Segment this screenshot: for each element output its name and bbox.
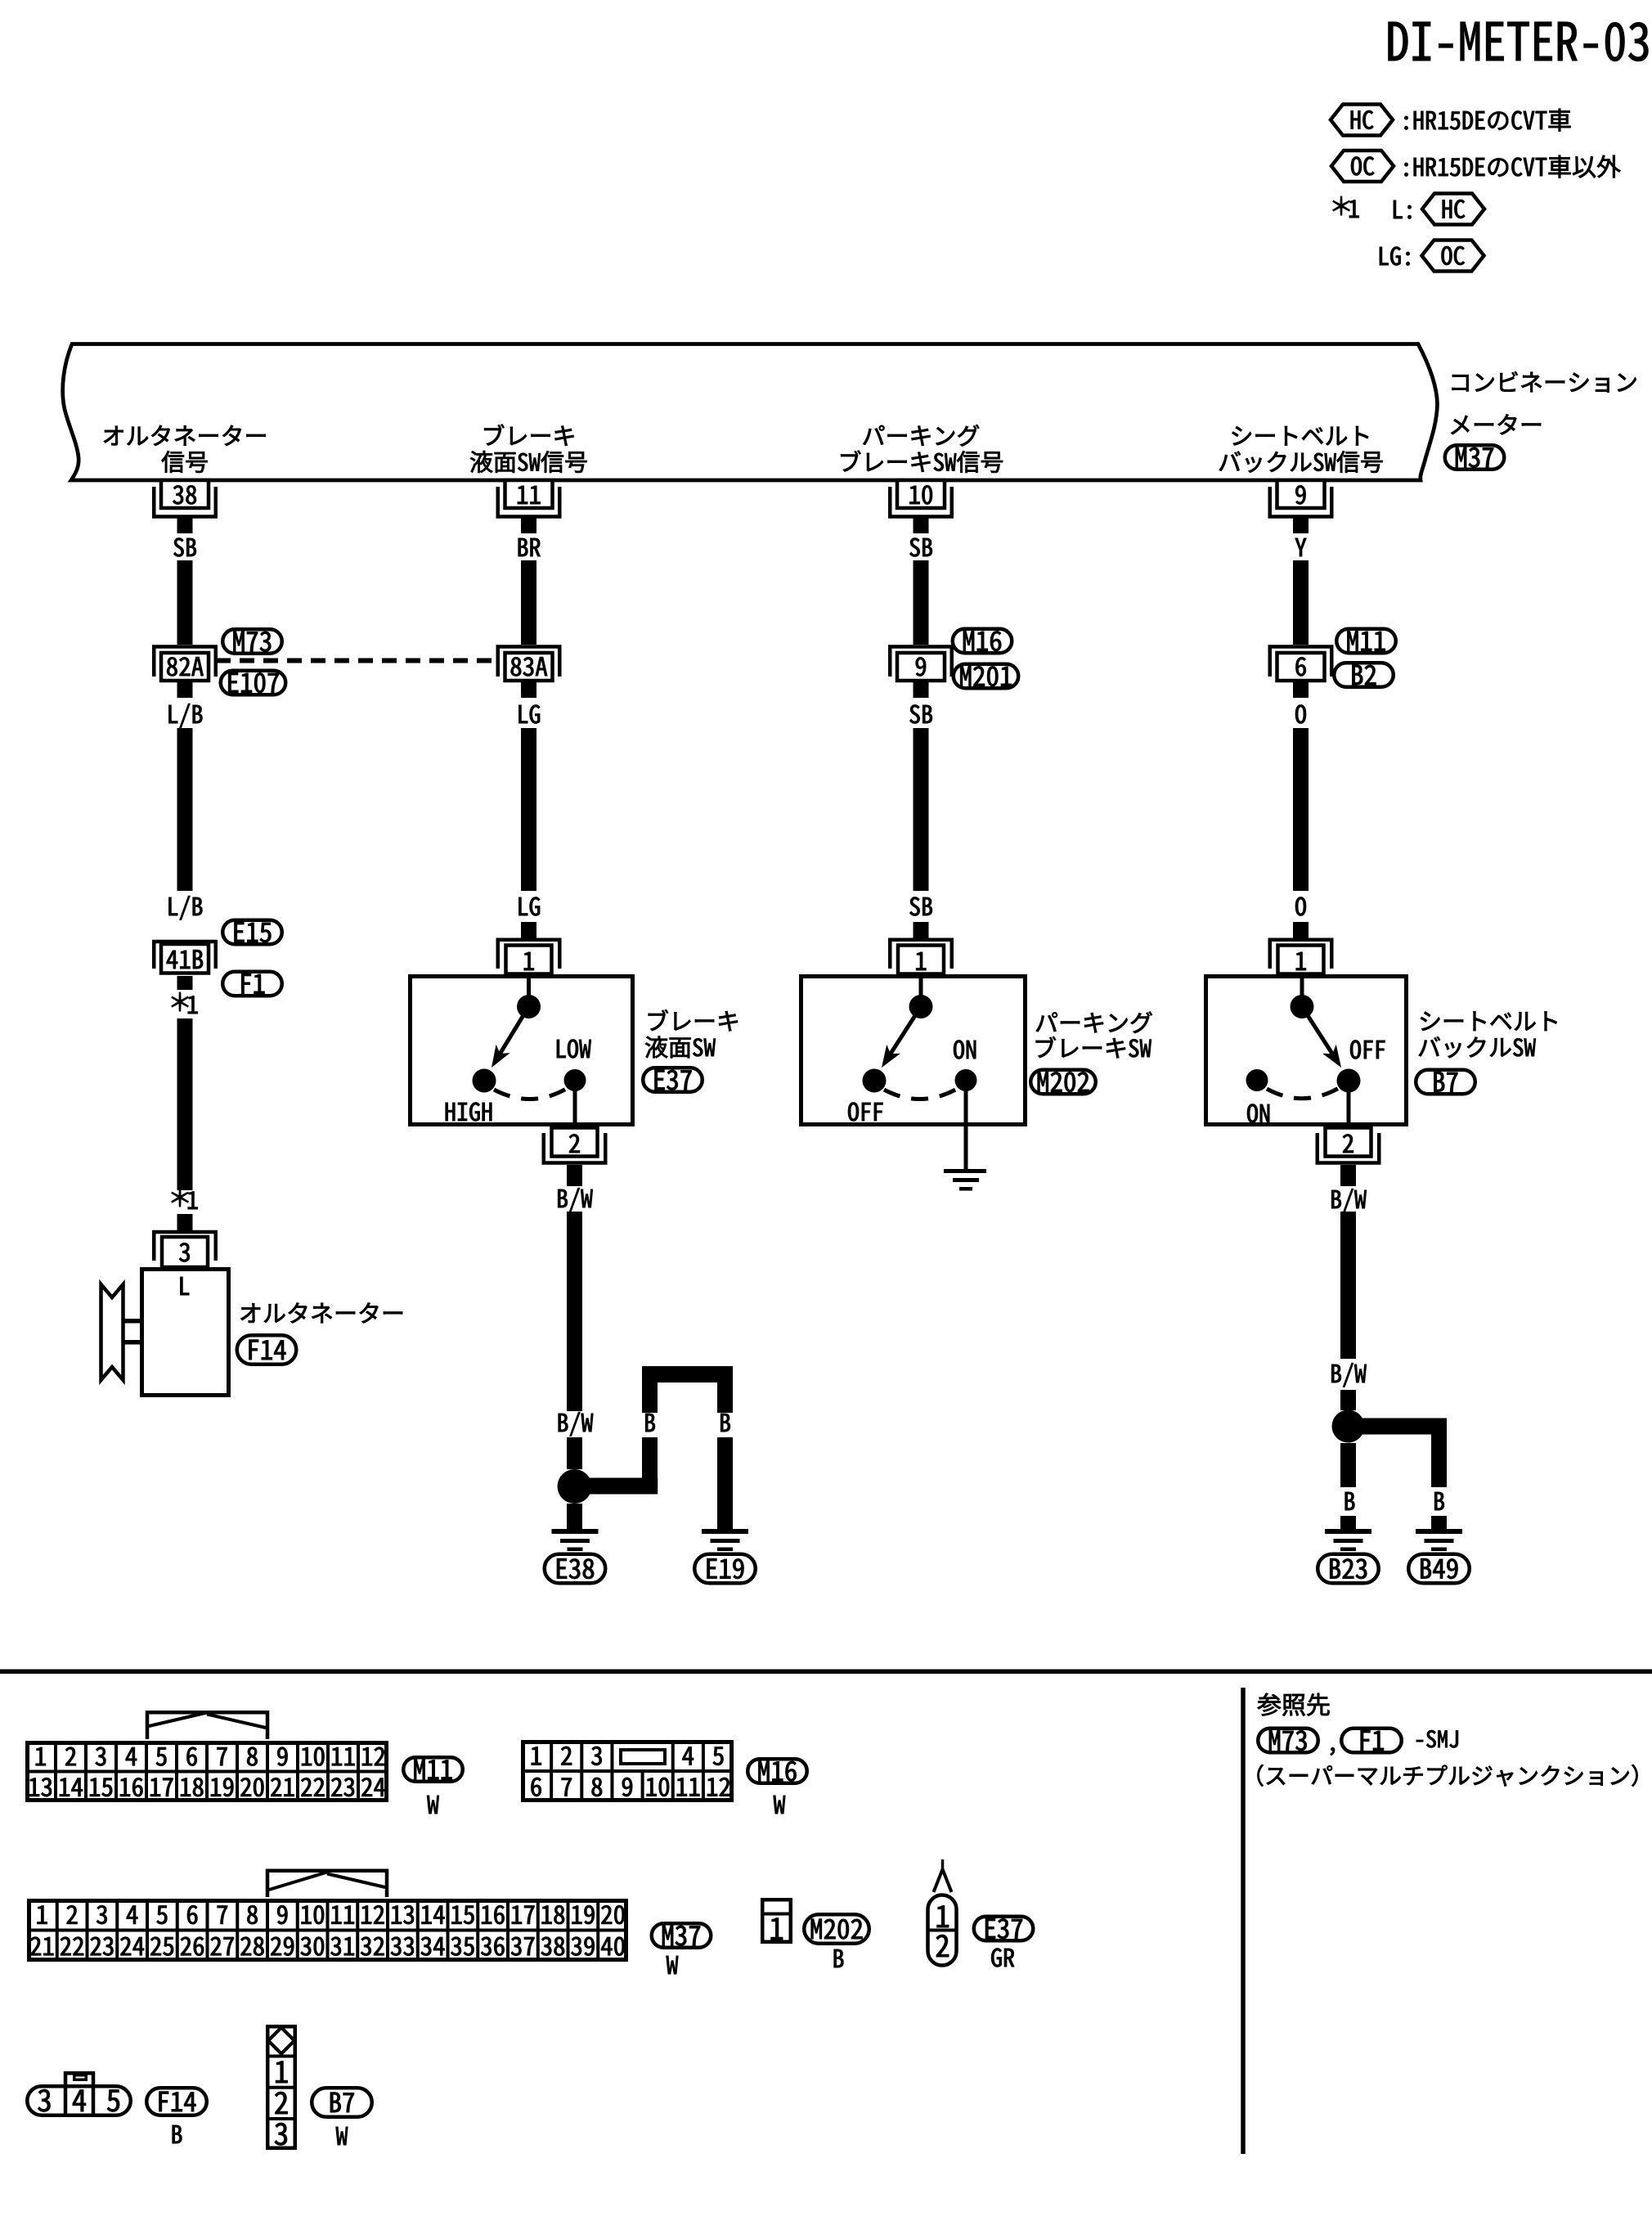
connector drawing B7 ref <box>312 2088 372 2117</box>
wire color SB col3 b <box>909 705 931 724</box>
switch E37 dashed arc <box>494 1088 568 1099</box>
wire color B/W col2 <box>558 1188 592 1212</box>
wire color SB col3 c <box>909 897 931 916</box>
alternator F14 box <box>142 1270 229 1396</box>
wire color Y col4 <box>1295 538 1307 556</box>
wire col1 middle <box>177 728 193 891</box>
connector ref B2 <box>1334 663 1394 687</box>
connector E37 color GR <box>991 1949 1014 1967</box>
connector ref M37 <box>1445 445 1505 470</box>
wire col4 stub to pin1 <box>1293 922 1309 938</box>
connector drawing M202 <box>762 1900 791 1942</box>
connector drawing E37 <box>928 1895 957 1966</box>
connector ref E15 <box>222 920 282 945</box>
switch E37 arrow <box>500 1007 528 1054</box>
wire color B/W col4 <box>1331 1189 1366 1212</box>
combination meter box M37 <box>63 344 1438 481</box>
wire col4 branch horizontal <box>1349 1418 1448 1435</box>
connector F14 color B <box>173 2125 182 2143</box>
wire col2 lower <box>567 1212 582 1411</box>
connector M202 color B <box>834 1949 844 1967</box>
wire col1 lower <box>177 1018 193 1190</box>
connector ref M16 <box>953 629 1012 654</box>
connector 83A <box>498 647 560 677</box>
switch E37 LOW contact <box>564 1069 586 1091</box>
connector ref M11 mid <box>1336 629 1396 654</box>
reference column divider <box>1241 1688 1246 2154</box>
connector M11 color W <box>427 1796 439 1814</box>
label parking brake SW signal <box>863 425 979 446</box>
connector drawing M16 <box>523 1742 732 1801</box>
ground ref B49 <box>1408 1554 1470 1584</box>
wire branch U top <box>642 1366 733 1383</box>
dashed link 82A-83A <box>216 659 498 663</box>
wire color O col4 b <box>1295 897 1306 916</box>
label super multiple junction <box>1258 1765 1638 1787</box>
label sanshosaki <box>1258 1693 1330 1716</box>
legend note LG <box>1380 247 1410 266</box>
legend tag HC 2 <box>1422 194 1484 225</box>
note *1 lower <box>172 1188 189 1207</box>
connector ref M73 <box>222 629 282 654</box>
switch M202 ground lead <box>964 1089 968 1171</box>
wire color L/B col1 <box>169 704 203 727</box>
ground B49 symbol <box>1416 1529 1462 1534</box>
label alternator <box>241 1302 403 1323</box>
switch M202 ON contact <box>955 1069 977 1091</box>
junction col4 <box>1332 1410 1365 1443</box>
wire color L/B col1 b <box>169 896 203 919</box>
wire col4 stub below pin2 <box>1340 1165 1356 1186</box>
connector 9 harness <box>890 647 952 677</box>
label parking brake SW <box>1036 1012 1152 1033</box>
ground E38 symbol <box>552 1529 599 1534</box>
wire color LG col2 b <box>519 897 541 916</box>
wire col2 stub to pin1 <box>521 922 536 938</box>
wire col2 branch horizontal <box>575 1478 658 1495</box>
pin 11 <box>505 480 553 508</box>
pin 1 brake fluid SW <box>498 940 560 969</box>
parking brake SW box M202 <box>801 977 1026 1125</box>
wire col4 right to ground <box>1431 1516 1447 1529</box>
wire color B right <box>721 1414 730 1432</box>
ground ref E38 <box>545 1554 606 1584</box>
wire col1 stub <box>177 1214 193 1230</box>
wire col4 middle <box>1293 728 1309 891</box>
connector drawing E37 ref <box>974 1917 1034 1941</box>
connector drawing M11 ref <box>403 1757 463 1782</box>
connector ref E107 <box>221 671 286 695</box>
switch B7 OFF lead <box>1347 1090 1351 1127</box>
ground symbol M202 <box>944 1169 986 1173</box>
connector ref M202 <box>1030 1070 1096 1095</box>
wire color B col4 left <box>1345 1492 1355 1510</box>
connector drawing F14 ref <box>146 2088 207 2115</box>
pin 10 <box>897 480 945 508</box>
reference ref F1 <box>1341 1729 1402 1753</box>
connector drawing M11 <box>147 1712 267 1739</box>
wire color B/W col4 b <box>1331 1363 1366 1387</box>
legend tag HC <box>1331 105 1393 136</box>
connector 82A <box>154 647 216 677</box>
ground ref E19 <box>694 1554 756 1584</box>
wire col4 left to ground <box>1340 1516 1356 1529</box>
connector ref F1 <box>222 972 282 996</box>
wire col2 upper <box>521 560 536 645</box>
wire color LG col2 <box>519 705 541 724</box>
connector drawing F14 <box>27 2086 131 2115</box>
alternator shaft <box>123 1319 140 1324</box>
wire color B col4 right <box>1434 1492 1444 1510</box>
switch B7 common contact <box>1300 976 1304 996</box>
switch M202 common contact <box>919 976 923 996</box>
wire col4 upper <box>1293 560 1309 645</box>
connector ref M201 <box>954 664 1019 689</box>
title DI-METER-03 <box>1389 22 1649 61</box>
alternator pulley <box>101 1284 123 1380</box>
label ON b7 <box>1247 1104 1269 1123</box>
switch E37 HIGH contact <box>473 1069 496 1093</box>
connector drawing B7 <box>267 2026 295 2148</box>
wire color L <box>181 1277 190 1295</box>
pin 2 seat belt SW <box>1326 1128 1371 1157</box>
connector drawing M37 <box>267 1871 387 1897</box>
pin 2 brake fluid SW <box>552 1128 598 1157</box>
label seat belt buckle SW signal <box>1232 426 1369 445</box>
connector ref E37 <box>643 1068 703 1092</box>
wire branch U left <box>642 1383 658 1413</box>
wire col2 middle <box>521 728 536 891</box>
legend tag OC <box>1331 151 1394 182</box>
ground ref B23 <box>1318 1554 1379 1584</box>
legend text HR15DE CVT <box>1405 109 1571 132</box>
connector M16 color W <box>774 1796 786 1814</box>
separator line <box>0 1670 1652 1675</box>
wire col4 branch vertical <box>1431 1435 1447 1488</box>
label LOW <box>557 1040 591 1059</box>
wire color SB col1 <box>173 538 195 557</box>
label -SMJ <box>1416 1730 1458 1747</box>
note *1 upper <box>172 992 189 1011</box>
connector drawing M37 ref <box>652 1923 712 1948</box>
wire color SB col3 <box>909 538 931 557</box>
wire col2 stub below pin2 <box>567 1165 582 1186</box>
connector ref B7 <box>1416 1070 1475 1095</box>
wire branch U right <box>717 1383 733 1413</box>
label OFF b7 <box>1350 1041 1385 1059</box>
label brake fluid SW <box>649 1009 738 1031</box>
switch B7 OFF contact <box>1337 1069 1361 1093</box>
wire col4 lower <box>1340 1212 1356 1359</box>
legend tag OC 2 <box>1422 241 1484 272</box>
wire col3 upper <box>914 560 929 645</box>
legend text HR15DE CVT igai <box>1405 155 1621 178</box>
seat belt buckle SW box B7 <box>1206 977 1407 1125</box>
reference comma <box>1331 1747 1335 1756</box>
label HIGH <box>446 1103 492 1122</box>
label seat belt buckle SW <box>1421 1012 1557 1031</box>
wire col4 to junction <box>1340 1390 1356 1410</box>
wire color BR col2 <box>518 538 541 556</box>
wire color B/W col2 b <box>559 1412 593 1436</box>
switch B7 dashed arc <box>1267 1088 1339 1099</box>
pin 3 alternator <box>154 1232 216 1261</box>
switch M202 dashed arc <box>884 1088 958 1099</box>
connector B7 color W <box>336 2127 348 2145</box>
label alternator signal <box>104 425 266 446</box>
switch E37 common contact <box>527 976 531 996</box>
switch E37 LOW lead <box>573 1090 577 1127</box>
switch B7 arrow <box>1302 1007 1332 1054</box>
connector 41B <box>154 942 216 969</box>
reference ref M73 <box>1258 1729 1318 1753</box>
wire col4 below junction <box>1340 1443 1356 1487</box>
switch M202 OFF contact <box>863 1069 887 1093</box>
pin 9 <box>1277 480 1325 508</box>
wire color B left <box>645 1414 655 1432</box>
wire col3 middle <box>914 728 929 891</box>
brake fluid SW box E37 <box>411 977 633 1125</box>
legend note *1 L <box>1333 196 1350 215</box>
wire col2 to ground <box>567 1504 582 1529</box>
label ON m202 <box>954 1041 976 1059</box>
connector ref F14 <box>237 1335 297 1365</box>
label brake fluid SW signal <box>484 425 573 446</box>
wire col1 upper <box>177 560 193 645</box>
pin 38 <box>161 480 209 508</box>
pin 1 seat belt SW <box>1270 940 1332 969</box>
ground B23 symbol <box>1325 1529 1371 1534</box>
switch M202 arrow <box>891 1007 921 1054</box>
pin 1 parking brake SW <box>890 940 952 969</box>
ground E19 symbol <box>702 1529 748 1534</box>
wire color O col4 <box>1295 705 1306 724</box>
wire col3 stub to pin1 <box>914 922 929 938</box>
wire col2 to junction <box>567 1437 582 1469</box>
connector drawing M202 ref <box>804 1914 869 1944</box>
junction col2 <box>558 1469 592 1504</box>
label OFF m202 <box>848 1103 882 1122</box>
connector drawing M16 ref <box>747 1759 807 1783</box>
label combination meter <box>1452 371 1636 393</box>
connector M37 color W <box>667 1956 679 1974</box>
connector 6 harness <box>1270 647 1332 677</box>
switch B7 ON contact <box>1246 1069 1268 1091</box>
